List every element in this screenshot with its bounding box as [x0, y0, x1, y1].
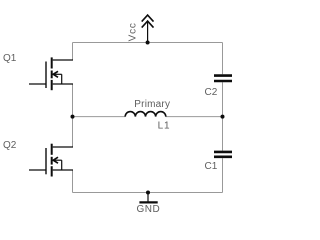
svg-text:GND: GND — [137, 204, 161, 215]
svg-text:Primary: Primary — [134, 99, 170, 110]
svg-text:Vcc: Vcc — [127, 22, 138, 41]
svg-text:Q2: Q2 — [3, 140, 17, 151]
svg-text:L1: L1 — [158, 121, 171, 132]
svg-text:C1: C1 — [205, 161, 218, 172]
svg-text:C2: C2 — [205, 87, 218, 98]
svg-text:Q1: Q1 — [3, 53, 17, 64]
